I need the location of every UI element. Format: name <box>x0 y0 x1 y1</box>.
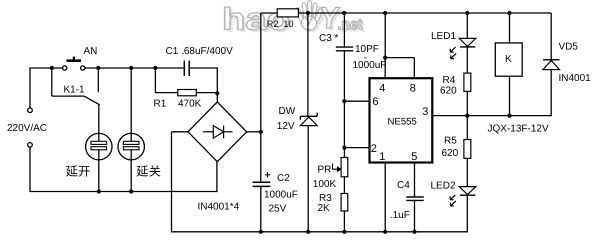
svg-text:470K: 470K <box>178 98 202 109</box>
svg-text:R4: R4 <box>443 75 456 86</box>
svg-text:C3 *: C3 * <box>319 33 339 44</box>
wire node J up to rail <box>384 13 386 58</box>
wire top-left horizontal to AN <box>29 67 62 69</box>
wire node C down (R1 branch) <box>154 68 156 93</box>
switch K1-1 blade <box>84 96 100 105</box>
node J2 (rail tap) <box>383 11 387 15</box>
svg-text:VD5: VD5 <box>559 42 579 53</box>
svg-text:2: 2 <box>371 143 377 155</box>
capacitor C2 (electrolytic) <box>253 182 271 232</box>
svg-text:R5: R5 <box>444 135 457 146</box>
capacitor C4 <box>406 197 423 200</box>
pin 5 number <box>411 151 417 163</box>
LED2 arrows <box>450 195 456 206</box>
wire node E up to top rail <box>260 13 262 132</box>
label K <box>505 54 512 65</box>
label DW <box>279 106 296 117</box>
svg-text:IN4001*4: IN4001*4 <box>198 202 240 213</box>
wire K1-1 fixed contact from node B <box>97 68 99 92</box>
svg-text:1000uF: 1000uF <box>264 190 298 201</box>
wire C3 down to pin6 node <box>343 51 345 101</box>
resistor R1 <box>178 90 197 96</box>
svg-text:12V: 12V <box>277 121 295 132</box>
relay coil K <box>495 43 522 76</box>
wire from T1 up to top rail <box>29 68 31 108</box>
label R3 <box>319 193 332 204</box>
label PR <box>318 164 332 175</box>
svg-text:8: 8 <box>410 83 416 95</box>
label C4 <box>397 180 410 191</box>
svg-text:C2: C2 <box>277 173 290 184</box>
resistor R5 <box>464 140 471 159</box>
label JQX-13F-12V <box>488 123 549 134</box>
wire node G down to C3 <box>343 13 345 47</box>
diode VD5 <box>543 60 560 70</box>
junction pin1/DC rail <box>383 230 387 234</box>
wire blade to lamp1 top <box>98 105 100 134</box>
node J (pin4/8 tie) <box>383 56 387 60</box>
junction C2/DC rail <box>259 230 263 234</box>
label DW voltage <box>277 121 295 132</box>
junction relay/pin3 line <box>507 114 511 118</box>
C2 plus sign <box>265 172 270 177</box>
wire node D to bridge AC1 <box>216 93 218 102</box>
node H (pin 6 junction) <box>342 99 346 103</box>
svg-text:620: 620 <box>442 148 459 159</box>
label 220V/AC <box>7 123 47 134</box>
svg-text:LED2: LED2 <box>431 181 456 192</box>
DC negative rail <box>171 231 467 233</box>
resistor R2 <box>277 9 298 17</box>
junction lamp1/rail <box>97 189 101 193</box>
node L (pin3/LED junction) <box>465 114 469 118</box>
svg-text:10: 10 <box>283 19 293 29</box>
label C3 <box>319 33 339 44</box>
svg-text:R2: R2 <box>267 19 279 29</box>
wire node I down to PR <box>343 148 345 158</box>
node K1 (rail tap LED1) <box>465 11 469 15</box>
wire lamp2 to AC bottom rail <box>130 160 132 192</box>
wire relay down to pin3 line <box>509 76 511 115</box>
pin 5 stub <box>414 163 416 197</box>
wire R3 down to DC rail <box>343 211 345 232</box>
svg-text:C1 .68uF/400V: C1 .68uF/400V <box>166 46 234 57</box>
pin 4 number <box>379 83 385 95</box>
wire pin 6 stub <box>344 100 369 102</box>
pushbutton AN <box>63 57 85 71</box>
wire bridge plus to node E <box>247 131 261 133</box>
svg-text:LED1: LED1 <box>431 31 456 42</box>
bridge rectifier IN4001*4 <box>188 102 247 162</box>
pin 8 number <box>410 83 416 95</box>
svg-text:K1-1: K1-1 <box>64 84 86 95</box>
label C2 value <box>264 190 298 201</box>
label VD5 <box>559 42 579 53</box>
node A (junction before AN) <box>50 66 54 70</box>
wire lamp1 to AC bottom rail <box>98 160 100 192</box>
svg-text:6: 6 <box>372 96 378 108</box>
svg-text:DW: DW <box>279 106 296 117</box>
AC bottom rail <box>29 191 217 193</box>
wire VD5 down to pin3 line <box>550 70 552 117</box>
label C3 dash <box>364 53 367 64</box>
label C2 voltage <box>269 204 287 215</box>
label LED2 <box>431 181 456 192</box>
wire R1 right lead <box>196 92 217 94</box>
label R2 <box>267 19 294 29</box>
svg-text:220V/AC: 220V/AC <box>7 123 47 134</box>
wire R5 to LED2 <box>466 158 468 186</box>
wire LED2 down to DC rail <box>466 195 468 232</box>
label PR value <box>313 179 337 190</box>
label R4 value <box>440 86 457 97</box>
label LED1 <box>431 31 456 42</box>
top +12V rail <box>298 12 551 14</box>
pin 8 stub <box>413 58 415 79</box>
node B (junction after AN) <box>96 66 100 70</box>
svg-text:4: 4 <box>379 83 385 95</box>
pin 4 stub <box>384 58 386 79</box>
label NE555 <box>388 116 417 127</box>
wire K1-1 left lead <box>52 95 84 97</box>
zener diode DW <box>300 113 317 126</box>
label R5 <box>444 135 457 146</box>
wire node L down to R5 <box>466 116 468 140</box>
node I (pin 2 junction) <box>342 146 346 150</box>
LED2 <box>459 187 476 196</box>
label C4 value <box>390 210 410 221</box>
wire C4 down to DC rail <box>414 200 416 231</box>
watermark haoDIY.net <box>222 2 365 40</box>
svg-text:25V: 25V <box>269 204 287 215</box>
wire pin 2 stub <box>344 147 369 149</box>
node M (rail tap relay) <box>507 11 511 15</box>
wire bridge minus to left <box>172 131 189 133</box>
LED1 <box>459 38 476 47</box>
IC U1 NE555 <box>370 78 433 162</box>
wire node E down to C2 <box>260 132 262 182</box>
pin 3 number <box>422 106 428 118</box>
label R3 value <box>318 203 331 214</box>
svg-text:3: 3 <box>422 106 428 118</box>
node F (zener tap) <box>306 11 310 15</box>
svg-text:.1uF: .1uF <box>390 210 410 221</box>
wire PR to R3 <box>343 177 345 194</box>
label R5 value <box>442 148 459 159</box>
wire rail down to LED1 <box>466 13 468 38</box>
wire R1 left lead <box>155 92 177 94</box>
terminal T1 (AC live) <box>28 108 33 113</box>
label C3 value 1 <box>355 44 379 55</box>
junction R3/DC rail <box>342 230 346 234</box>
label C2 <box>277 173 290 184</box>
node E (+ output) <box>259 130 263 134</box>
node B2 (lamp2 tap) <box>129 66 133 70</box>
wire node A down (K1-1 branch) <box>51 68 53 96</box>
LED1 arrows <box>450 47 456 59</box>
label C3 value 2 <box>353 60 387 71</box>
pin 6 number <box>372 96 378 108</box>
label R1 <box>154 98 167 109</box>
wire C1 right corner down <box>216 67 218 93</box>
capacitor C3 <box>336 47 353 51</box>
label VD5 type <box>559 73 592 84</box>
svg-text:100K: 100K <box>313 179 337 190</box>
svg-text:R1: R1 <box>154 98 167 109</box>
junction DW/DC rail <box>306 230 310 234</box>
svg-text:K: K <box>505 54 512 65</box>
label R4 <box>443 75 456 86</box>
svg-text:.net: .net <box>338 17 363 34</box>
resistor R3 <box>341 194 348 212</box>
wire R4 down to pin3 line <box>466 91 468 115</box>
wire rail down to relay <box>509 13 511 43</box>
delay element (lamp) 延开 <box>86 133 112 159</box>
wire top rail right corner down <box>550 13 552 59</box>
capacitor C1 <box>155 61 217 77</box>
pin 1 stub <box>384 163 386 232</box>
wire DW down to DC rail <box>307 126 309 232</box>
svg-text:1000uF: 1000uF <box>353 60 387 71</box>
svg-text:PR: PR <box>318 164 332 175</box>
svg-text:hao: hao <box>222 2 290 37</box>
wire T2 down to AC rail <box>29 147 31 191</box>
delay element (lamp) 延关 <box>118 133 144 159</box>
node G (C3 tap) <box>342 11 346 15</box>
junction lamp2/rail <box>129 189 133 193</box>
svg-text:JQX-13F-12V: JQX-13F-12V <box>488 123 549 134</box>
svg-text:2K: 2K <box>318 203 331 214</box>
wire left down to DC rail <box>171 132 173 233</box>
potentiometer PR <box>333 158 348 177</box>
label AN <box>84 46 98 57</box>
wire pins 4-8 tie <box>385 57 414 59</box>
junction C4/DC rail <box>412 230 416 234</box>
svg-text:NE555: NE555 <box>388 116 417 127</box>
svg-text:C4: C4 <box>397 180 410 191</box>
svg-text:5: 5 <box>411 151 417 163</box>
pin 2 number <box>371 143 377 155</box>
wire AN to C1 section <box>85 67 156 69</box>
label 延开 <box>66 165 90 176</box>
label 延关 <box>137 165 161 176</box>
svg-text:10PF: 10PF <box>355 44 379 55</box>
wire AC rail up to bridge AC2 <box>216 161 218 192</box>
label R1 value <box>178 98 202 109</box>
wire node H down to pin2 node <box>343 101 345 147</box>
label C1 value <box>166 46 234 57</box>
svg-text:IN4001: IN4001 <box>559 73 592 84</box>
label IN4001*4 <box>198 202 240 213</box>
label K1-1 <box>64 84 86 95</box>
top +12V rail left <box>261 12 277 14</box>
pin 1 number <box>379 151 385 163</box>
svg-text:1: 1 <box>379 151 385 163</box>
wire LED1 to R4 <box>466 47 468 73</box>
pin 3 stub <box>432 115 551 117</box>
resistor R4 <box>464 73 471 91</box>
node C (C1 left junction) <box>153 66 157 70</box>
terminal T2 (AC neutral) <box>28 143 33 148</box>
wire node B2 down to lamp2 <box>130 68 132 134</box>
svg-text:620: 620 <box>440 86 457 97</box>
svg-text:AN: AN <box>84 46 98 57</box>
node D (C1/R1/bridge junction) <box>215 91 219 95</box>
wire node F down to DW <box>307 13 309 116</box>
